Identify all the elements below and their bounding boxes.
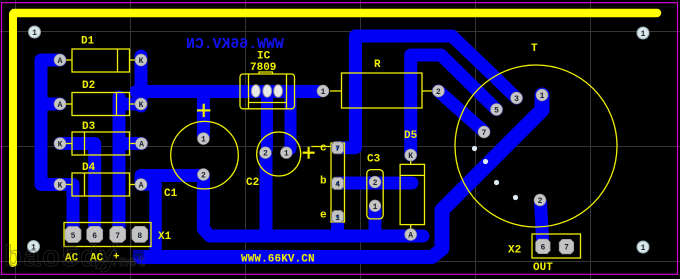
connector X1 outline xyxy=(64,223,151,247)
silkscreen outlines xyxy=(64,49,617,258)
pad b of Q xyxy=(332,177,344,189)
wire A(D4) drop to bottom rail xyxy=(141,185,156,252)
svg-text:A: A xyxy=(408,232,413,241)
wire stub A(D2) to left rail xyxy=(44,98,60,111)
svg-text:A: A xyxy=(139,141,144,150)
svg-text:5: 5 xyxy=(71,232,76,241)
wire IC pin2 down to C2 pad2 xyxy=(261,94,273,149)
connector X2 outline xyxy=(532,234,581,258)
wire minus rail: A(D4) up and over to C1 pad2, down, right to Q emitter xyxy=(141,176,423,237)
wire AC1: A(D1) left rail down to K(D4) and X1 pad5 xyxy=(41,60,73,235)
pad K of D2 xyxy=(135,98,147,110)
wire AC2: K(D3) to X1 pad6 xyxy=(60,144,95,235)
wire outer gamma: R crossing up, over, diagonal to T pin3 xyxy=(338,36,517,148)
svg-text:4: 4 xyxy=(335,181,340,190)
svg-text:C2: C2 xyxy=(246,177,259,189)
wire inner gamma: R crossing up, over, diagonal to T pin5 xyxy=(411,55,497,155)
wire plus rail: bar down to X1 pad7 xyxy=(113,97,126,234)
svg-text:R: R xyxy=(374,59,381,71)
wire Q emitter stub xyxy=(331,217,344,233)
mounting hole pad 1 bottom-right xyxy=(637,241,649,253)
pad e of Q xyxy=(332,211,344,223)
pad 2 of C2 xyxy=(260,147,272,159)
svg-text:7: 7 xyxy=(115,232,120,241)
pad 1 of T xyxy=(536,89,548,101)
pads: round pads xyxy=(28,26,650,254)
pad 8 of X1 xyxy=(132,226,148,242)
wire T pin1 big diagonal down to bottom rail xyxy=(442,95,542,248)
resistor R body xyxy=(330,73,432,108)
svg-text:X1: X1 xyxy=(158,231,172,243)
transistor Q outline xyxy=(311,143,344,222)
wire raw+ rail to IC pin1 and R pad xyxy=(136,85,318,98)
wire C3 pad1 drop xyxy=(369,208,382,234)
svg-text:1: 1 xyxy=(284,150,289,159)
capacitor C2 plus mark xyxy=(303,147,315,159)
svg-text:K: K xyxy=(139,57,144,66)
IC pin pads xyxy=(251,85,282,97)
svg-text:2: 2 xyxy=(263,150,268,159)
svg-text:D2: D2 xyxy=(82,80,95,92)
svg-text:3: 3 xyxy=(514,95,519,104)
svg-text:A: A xyxy=(139,182,144,191)
wire T pin2 drop to X2 pad6 xyxy=(541,202,543,245)
diode D5 body xyxy=(400,161,424,229)
pad 6 of X2 xyxy=(536,239,551,254)
svg-text:1: 1 xyxy=(373,203,378,212)
wire R pad2 diagonal to T pin7 xyxy=(438,91,484,132)
pad 5 of X1 xyxy=(65,227,81,243)
svg-text:1: 1 xyxy=(641,244,646,253)
svg-text:1: 1 xyxy=(335,214,340,223)
svg-text:5: 5 xyxy=(494,107,499,116)
wire base rail: Q base to C3 pad2 to D5 xyxy=(338,177,412,190)
svg-text:D4: D4 xyxy=(82,162,96,174)
svg-text:e: e xyxy=(320,210,327,222)
svg-text:1: 1 xyxy=(32,29,37,38)
pad 5 of T xyxy=(491,104,503,116)
wire K(D1)-K(D2) vertical bar xyxy=(135,56,148,106)
svg-text:C3: C3 xyxy=(367,154,381,166)
pad 2 of C3 xyxy=(369,176,381,188)
svg-text:C1: C1 xyxy=(164,188,178,200)
pad 1 node IC-R xyxy=(317,85,329,97)
capacitor C2 outline xyxy=(257,132,301,176)
svg-text:2: 2 xyxy=(436,88,441,97)
svg-text:b: b xyxy=(320,176,327,188)
svg-text:A: A xyxy=(58,57,63,66)
svg-text:1: 1 xyxy=(540,92,545,101)
svg-text:7: 7 xyxy=(482,129,487,138)
svg-text:7: 7 xyxy=(564,244,569,253)
pad c of Q xyxy=(332,142,344,154)
IC 7809 TO-220 outline xyxy=(240,72,295,109)
diode D4 body xyxy=(66,173,136,196)
wire C2 pad2 drop to minus rail xyxy=(260,156,273,231)
blue copper traces xyxy=(41,36,543,257)
svg-text:7: 7 xyxy=(335,145,340,154)
wire C1 pad1 riser xyxy=(197,94,210,136)
wire bottom output rail xyxy=(140,249,442,257)
wire stub K(D2) to plus bar xyxy=(119,98,137,111)
mounting hole pad 1 bottom-left xyxy=(28,241,40,253)
mounting hole pad 1 top-right xyxy=(637,27,649,39)
svg-text:1: 1 xyxy=(321,88,326,97)
capacitor C3 outline xyxy=(367,170,383,219)
pad K of D3 xyxy=(54,138,66,150)
pad K of D5 xyxy=(405,149,417,161)
pad 1 of C1 xyxy=(198,133,210,145)
svg-text:A: A xyxy=(58,101,63,110)
pad 7 of X1 xyxy=(110,226,126,242)
svg-text:T: T xyxy=(531,43,538,55)
pad 2 of C1 xyxy=(198,169,210,181)
silkscreen labels xyxy=(65,36,553,275)
diode D2 body xyxy=(66,93,136,116)
pad 3 of T xyxy=(511,92,523,104)
svg-text:c: c xyxy=(320,143,327,155)
svg-text:D1: D1 xyxy=(81,36,95,48)
svg-text:K: K xyxy=(408,152,413,161)
pad 2 of R xyxy=(433,85,445,97)
diode D1 body xyxy=(66,49,136,72)
pad 7 of X2 xyxy=(559,239,574,254)
label minus on blue bar xyxy=(133,250,144,259)
pad 7 of T xyxy=(478,126,490,138)
svg-text:IC: IC xyxy=(257,51,271,63)
svg-text:2: 2 xyxy=(201,172,206,181)
net label WWW.66KV.CN mirrored copper text xyxy=(186,37,284,53)
pad 6 of X1 xyxy=(87,226,103,242)
pad A of D5 xyxy=(405,229,417,241)
svg-text:X2: X2 xyxy=(508,245,521,257)
mounting hole pad 1 top-left xyxy=(29,26,41,38)
svg-text:7809: 7809 xyxy=(250,62,276,74)
wire stub A(D3) to plus bar xyxy=(119,137,142,150)
pad 1 of C2 xyxy=(281,147,293,159)
svg-text:2: 2 xyxy=(538,197,543,206)
svg-text:OUT: OUT xyxy=(533,262,553,274)
svg-text:D5: D5 xyxy=(404,130,418,142)
capacitor C1 plus mark xyxy=(197,104,210,117)
pad A of D2 xyxy=(54,98,66,110)
svg-text:D3: D3 xyxy=(82,121,96,133)
pad A of D1 xyxy=(54,54,66,66)
svg-text:8: 8 xyxy=(137,232,142,241)
via dots inside T xyxy=(472,146,518,200)
pad A of D4 xyxy=(135,179,147,191)
svg-text:.net: .net xyxy=(110,254,146,271)
svg-text:6: 6 xyxy=(92,232,97,241)
board outline top edge xyxy=(14,9,657,18)
transformer T outline xyxy=(455,65,617,227)
svg-text:K: K xyxy=(139,101,144,110)
capacitor C1 outline xyxy=(171,121,239,189)
diode D3 body xyxy=(66,132,136,155)
svg-text:2: 2 xyxy=(373,179,378,188)
pad 2 of T xyxy=(534,194,546,206)
svg-text:6: 6 xyxy=(540,244,545,253)
svg-text:WWW.66KV.CN: WWW.66KV.CN xyxy=(241,254,315,266)
watermark bao5dy.net xyxy=(4,241,146,279)
svg-text:1: 1 xyxy=(201,136,206,145)
svg-text:K: K xyxy=(58,182,63,191)
board outline left edge xyxy=(9,14,17,263)
svg-text:K: K xyxy=(58,141,63,150)
pad K of D4 xyxy=(54,179,66,191)
pad K of D1 xyxy=(135,54,147,66)
pad 1 of C3 xyxy=(369,200,381,212)
pad A of D3 xyxy=(136,138,148,150)
svg-text:1: 1 xyxy=(641,30,646,39)
wire IC pin3 down to C2 pad1 xyxy=(285,94,297,149)
